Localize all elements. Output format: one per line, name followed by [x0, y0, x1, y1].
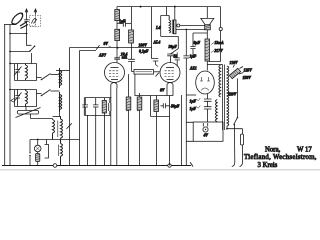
resistor R2: [102, 101, 106, 114]
label 217V: [211, 51, 214, 53]
trimmer C2 arrow: [14, 93, 22, 102]
voltage selector box: [193, 122, 223, 141]
top HT bus: [117, 6, 221, 8]
antenna plates A1: [24, 20, 29, 22]
osc link wire: [31, 118, 53, 120]
V2 grid dashes: [165, 71, 174, 77]
resistor R4: [115, 29, 120, 40]
svg-text:30pF: 30pF: [168, 45, 178, 49]
speaker lead 2: [176, 29, 205, 31]
HT corner drop: [220, 7, 222, 28]
bracket clip: [45, 140, 49, 159]
T2 core: [172, 20, 173, 35]
svg-text:0,1μF: 0,1μF: [139, 50, 149, 54]
bus junction circle right: [168, 164, 171, 167]
svg-text:AL4: AL4: [153, 41, 161, 45]
capacitor C7: [128, 59, 135, 61]
boxed resistor R10: [132, 71, 135, 73]
dashed coupling box: [30, 16, 41, 27]
inner rail: [9, 25, 11, 166]
coil L1: [26, 64, 28, 81]
wire R6 to bus: [128, 110, 130, 166]
grid wire B: [80, 50, 97, 52]
svg-text:8V: 8V: [104, 42, 109, 46]
terminal circle lead1: [177, 24, 180, 27]
cathode loop R8: [151, 96, 174, 117]
polarity marks: [197, 98, 201, 108]
capacitor C10 on x186: [183, 30, 189, 96]
wire block2 to S2: [37, 93, 42, 95]
V3 anodes: [200, 77, 210, 81]
antenna A1 stem: [26, 21, 28, 33]
rail to wave switch: [10, 51, 30, 53]
wire L6 top link: [53, 116, 61, 118]
parallel wire x181.5: [181, 95, 183, 166]
svg-text:AF7: AF7: [98, 53, 107, 57]
svg-text:50μF: 50μF: [171, 104, 180, 108]
chassis bus bottom: [2, 165, 191, 167]
osc coil L6: [61, 116, 63, 144]
svg-text:1μF: 1μF: [190, 107, 197, 111]
label 13mA: [211, 43, 214, 45]
gang end curves: [17, 111, 39, 115]
svg-text:125V: 125V: [244, 69, 253, 73]
transformer T2 primary: [169, 16, 170, 34]
grid wire A: [70, 47, 152, 49]
svg-text:13mA: 13mA: [214, 41, 224, 45]
band switch S2: [42, 90, 51, 96]
dial lamp: [34, 145, 41, 152]
wire block1 to S1: [37, 77, 42, 79]
wire S2 to L3b: [51, 90, 60, 92]
bus end tick: [190, 162, 193, 166]
band switch S1: [42, 74, 51, 80]
T2 bottom lead: [177, 36, 179, 48]
connector tick V2 grid: [156, 73, 159, 77]
svg-text:Nora,: Nora,: [265, 147, 281, 154]
V3 filament: [201, 88, 209, 91]
mains wire left: [232, 125, 235, 167]
capacitor C6 branch: [117, 21, 131, 27]
vertical x69: [69, 48, 71, 166]
svg-text:mA: mA: [122, 56, 128, 60]
osc core lines: [57, 121, 60, 157]
label 10,4 mA: [119, 55, 121, 57]
trimmer C2 plates: [15, 89, 20, 107]
V1 pin right: [116, 88, 118, 166]
V1 grid dashes: [109, 71, 118, 77]
vertical x79: [79, 51, 81, 166]
junction dot lamp top: [37, 139, 39, 141]
resistor R9: [205, 39, 210, 61]
rheostat: [229, 68, 240, 78]
T1 primary bottom: [226, 126, 228, 129]
T2 top lead to bus: [174, 7, 176, 20]
trimmer C1 arrow: [14, 67, 22, 76]
svg-text:1μF: 1μF: [119, 20, 126, 24]
block drops to bus: [88, 115, 96, 165]
speaker feed from bus: [206, 7, 208, 19]
mains switch: [234, 118, 238, 125]
wire V3 left: [186, 94, 196, 96]
osc coil L5: [53, 119, 55, 140]
T1 core: [223, 65, 225, 131]
electrolytic C4: [82, 98, 88, 116]
wire L3b to osc: [59, 112, 61, 117]
antenna arrow A2: [34, 9, 37, 14]
capacitor C13 8uF: [190, 33, 207, 56]
T1 filament winding: [216, 100, 218, 122]
junction dot drop: [26, 33, 28, 35]
lamp switch leg: [29, 140, 31, 153]
selector plug: [203, 127, 208, 132]
antenna arrow A1: [25, 9, 28, 20]
junction dot bus 174: [174, 6, 176, 8]
lamp resistor: [36, 154, 40, 162]
svg-text:8μF: 8μF: [194, 41, 201, 45]
fuse: [240, 134, 243, 145]
junction dot wire A: [117, 47, 119, 49]
svg-text:4V: 4V: [203, 134, 209, 138]
speaker return: [206, 30, 208, 39]
svg-text:L4: L4: [155, 26, 160, 30]
svg-text:Tiefland, Wechselstrom,: Tiefland, Wechselstrom,: [244, 154, 317, 161]
label 50uF: [170, 105, 173, 107]
tube V1 top cap: [114, 58, 120, 59]
junction dot rail block2: [9, 89, 11, 91]
rheostat taps: [233, 65, 244, 75]
lamp branch top wire: [30, 139, 80, 141]
mains wire right: [240, 145, 243, 167]
V2 anode: [166, 67, 174, 69]
svg-text:220V: 220V: [227, 93, 237, 97]
mains transformer top wire: [207, 64, 222, 66]
tube V1 AF7 envelope: [105, 63, 125, 83]
coil L3: [60, 68, 62, 88]
wire R4 down: [116, 41, 118, 58]
wave switch contact: [30, 46, 36, 52]
resistor R3: [116, 7, 118, 10]
label tick 8V: [109, 46, 112, 48]
svg-text:50: 50: [174, 55, 178, 59]
junction dot loop lead: [9, 33, 11, 35]
page fold line: [0, 169, 320, 171]
V2 top cap: [169, 56, 171, 63]
lamp resistor to bus: [37, 162, 39, 166]
switch blip x69: [67, 123, 72, 129]
V3 bottom stem: [207, 94, 209, 99]
avc arrow: [11, 99, 14, 103]
grid return loop: [135, 74, 151, 95]
drop x151: [151, 7, 153, 59]
rectifier V3 envelope: [196, 71, 215, 94]
antenna drop wire: [27, 34, 32, 64]
tuned circuit 1 frame: [10, 64, 37, 81]
output transformer frame: [161, 7, 179, 37]
wire R7 to bus: [139, 93, 141, 166]
coil L2: [26, 89, 28, 107]
T2 secondary bar: [174, 20, 176, 34]
svg-text:150V: 150V: [243, 76, 252, 80]
wire R9 down: [206, 61, 208, 71]
left rail: [4, 25, 6, 166]
fuse feed: [227, 129, 243, 134]
wire R5 down: [131, 43, 133, 59]
tuned circuit 2 frame: [10, 90, 37, 107]
terminal circle HT: [219, 27, 222, 30]
loop lead link: [10, 33, 27, 35]
resistor R5: [131, 7, 133, 30]
antenna feed wire: [4, 24, 17, 26]
wire A connector tick: [96, 45, 100, 50]
V2 cathode: [167, 79, 174, 81]
V1 anode: [111, 67, 119, 69]
lamp stems: [37, 140, 39, 154]
T1 primary: [227, 66, 229, 126]
junction dot rail block1: [9, 63, 11, 65]
filter capacitor C14: [204, 99, 212, 107]
tuning gang: [16, 107, 41, 119]
V2 grid cap diagonal: [170, 49, 178, 54]
svg-text:3 Kreis: 3 Kreis: [258, 162, 278, 169]
decoupling block rails: [84, 98, 111, 116]
x186 lower: [185, 95, 187, 166]
svg-text:1μF: 1μF: [190, 100, 197, 104]
T1 secondary HV: [219, 65, 221, 98]
svg-text:100V: 100V: [139, 43, 148, 47]
resistor R8: [154, 100, 159, 112]
V2 pins: [167, 88, 173, 96]
wire box to V2 grid: [154, 71, 161, 73]
tube V2 AL4 envelope: [160, 63, 180, 83]
speaker coil: [205, 25, 211, 30]
resistor R6: [128, 74, 130, 97]
coupling capacitor diagonal plates: [20, 22, 28, 29]
svg-text:217V: 217V: [213, 49, 223, 53]
bus junction circle left: [53, 164, 57, 168]
speaker cone: [201, 18, 214, 24]
svg-text:W 17: W 17: [297, 147, 312, 154]
coil L3b: [60, 92, 62, 112]
filter capacitor C15: [204, 107, 212, 122]
V1 pin left: [110, 88, 112, 166]
V1 cathode: [111, 79, 118, 81]
loop drops: [157, 117, 170, 166]
wires into box: [186, 122, 193, 141]
svg-text:AZ1: AZ1: [189, 67, 197, 71]
loop antenna: [10, 11, 25, 26]
capacitor C9: [175, 53, 180, 67]
electrolytic C5b: [109, 98, 111, 116]
V2 heater: [167, 83, 173, 89]
wire L3 to vertical: [56, 70, 70, 72]
dashed link A2: [30, 14, 36, 26]
wire R3-R4: [116, 21, 118, 30]
V1 heater: [111, 83, 117, 89]
svg-text:110V: 110V: [230, 61, 238, 65]
capacitor C12: [161, 103, 170, 108]
junction dot bus 140: [140, 6, 142, 8]
speaker lead 1: [176, 25, 205, 27]
resistor R7: [137, 97, 142, 110]
coupling capacitor C8: [152, 59, 159, 67]
coupling squiggle: [32, 19, 37, 24]
junction dot rail switch wire: [9, 51, 11, 53]
electrolytic C5: [93, 98, 99, 116]
wire S1 to L3: [51, 74, 60, 76]
rheostat bottom wire: [237, 79, 239, 118]
svg-text:8V: 8V: [160, 89, 165, 93]
osc coil L7: [61, 144, 63, 166]
junction dot lead2: [185, 29, 187, 31]
trimmer C1 plates: [15, 64, 20, 81]
